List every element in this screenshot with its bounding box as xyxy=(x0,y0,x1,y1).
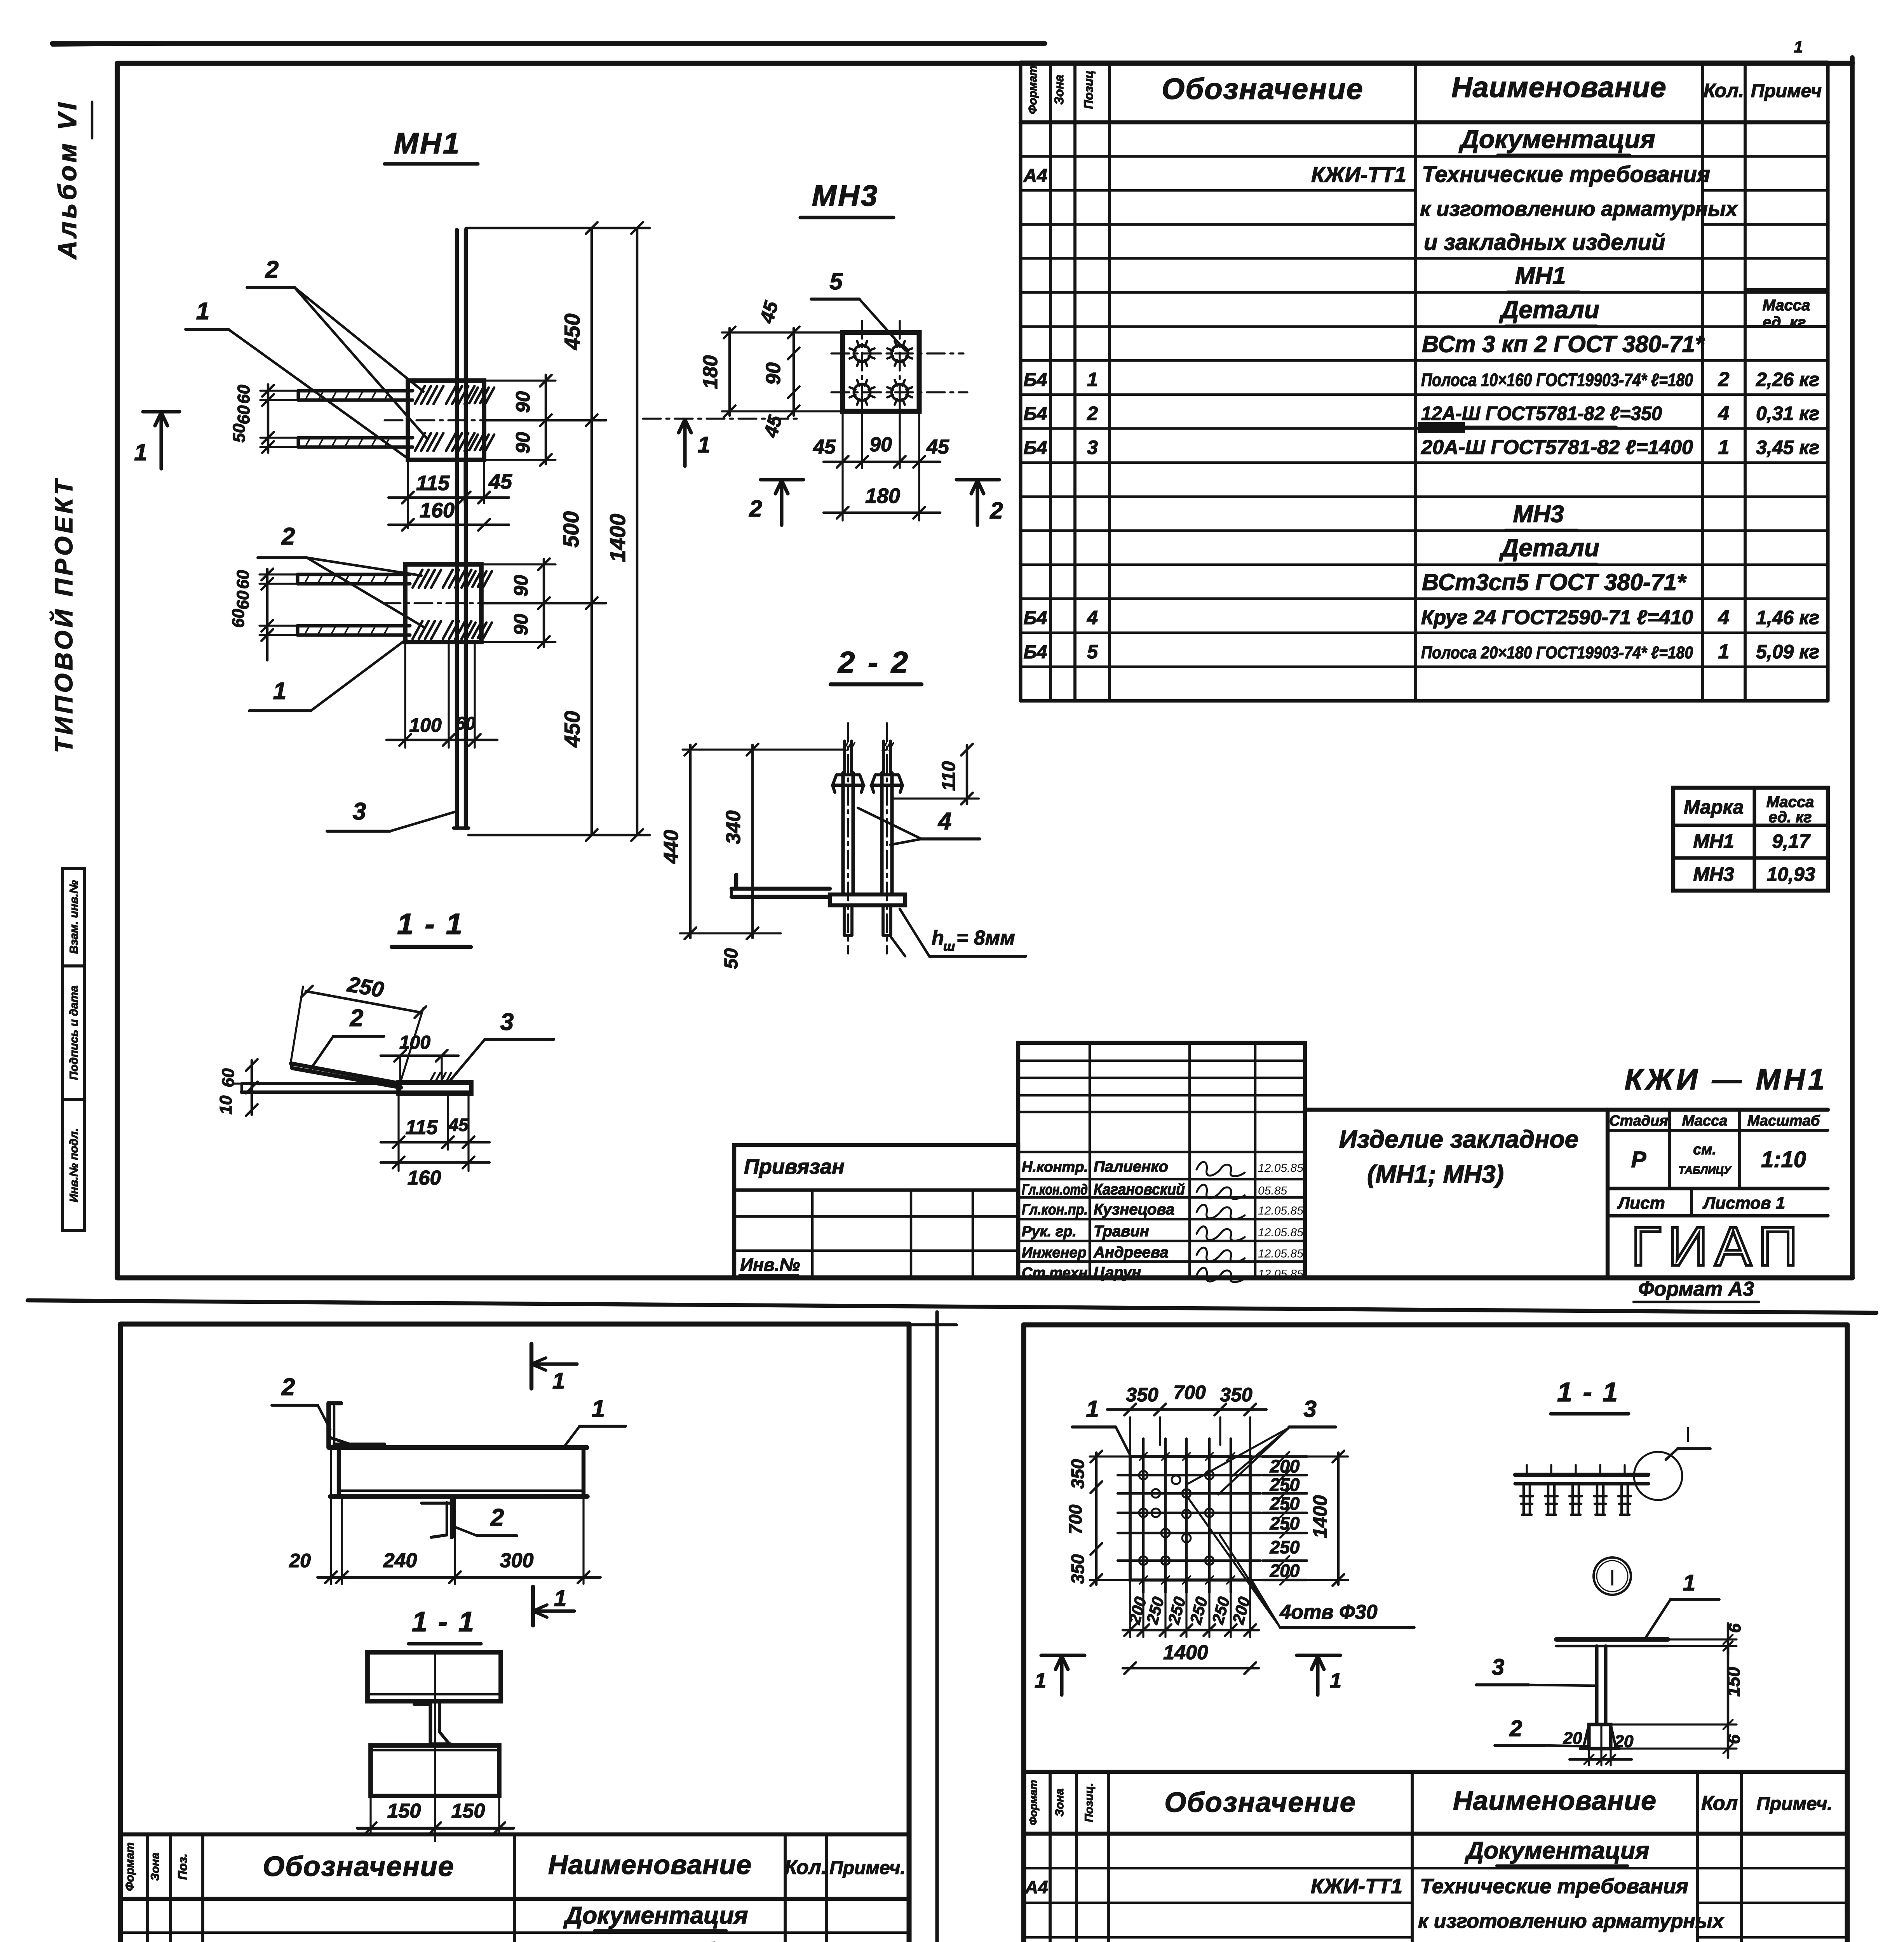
svg-text:250: 250 xyxy=(1270,1475,1300,1495)
svg-text:МН3: МН3 xyxy=(1513,501,1564,527)
svg-text:1 - 1: 1 - 1 xyxy=(397,908,464,941)
svg-text:Б4: Б4 xyxy=(1024,370,1047,390)
svg-text:Б4: Б4 xyxy=(1024,608,1047,628)
svg-text:А4: А4 xyxy=(1025,1877,1048,1897)
svg-text:Полоса 20×180 ГОСТ19903-74* ℓ=: Полоса 20×180 ГОСТ19903-74* ℓ=180 xyxy=(1421,643,1693,662)
svg-text:450: 450 xyxy=(560,711,584,747)
svg-text:10: 10 xyxy=(216,1095,235,1114)
svg-text:2 - 2: 2 - 2 xyxy=(837,645,910,679)
svg-text:1400: 1400 xyxy=(605,514,630,562)
svg-text:60: 60 xyxy=(233,570,253,589)
svg-text:КЖИ-ТТ1: КЖИ-ТТ1 xyxy=(1311,162,1406,186)
svg-text:1:10: 1:10 xyxy=(1761,1147,1806,1172)
svg-text:2: 2 xyxy=(989,498,1003,524)
svg-text:Масса: Масса xyxy=(1766,794,1814,811)
svg-text:60: 60 xyxy=(455,713,476,733)
svg-text:1400: 1400 xyxy=(1163,1641,1208,1664)
svg-text:Привязан: Привязан xyxy=(744,1155,845,1178)
svg-text:1: 1 xyxy=(1794,38,1803,56)
svg-text:Технические требования: Технические требования xyxy=(1420,1875,1688,1898)
svg-text:4: 4 xyxy=(1718,402,1730,425)
svg-text:МН1: МН1 xyxy=(394,127,461,160)
svg-text:1: 1 xyxy=(1683,1570,1695,1596)
svg-text:Примеч.: Примеч. xyxy=(829,1858,906,1878)
svg-text:115: 115 xyxy=(406,1116,438,1139)
svg-text:Детали: Детали xyxy=(1499,296,1599,324)
svg-text:5,09 кг: 5,09 кг xyxy=(1756,641,1819,663)
svg-text:1: 1 xyxy=(134,439,147,465)
svg-text:45: 45 xyxy=(813,436,836,458)
svg-text:МН1: МН1 xyxy=(1515,263,1566,289)
svg-text:МН1: МН1 xyxy=(1693,830,1734,852)
svg-text:250: 250 xyxy=(1270,1513,1300,1533)
svg-text:90: 90 xyxy=(762,362,785,385)
svg-text:60: 60 xyxy=(229,609,248,628)
svg-text:2: 2 xyxy=(350,1005,363,1032)
svg-text:3: 3 xyxy=(353,798,366,825)
svg-text:60: 60 xyxy=(233,590,253,609)
svg-text:Наименование: Наименование xyxy=(548,1850,752,1880)
svg-text:Взам. инв.№: Взам. инв.№ xyxy=(68,880,80,954)
svg-text:90: 90 xyxy=(510,575,532,597)
svg-text:3: 3 xyxy=(1303,1396,1316,1422)
svg-text:110: 110 xyxy=(939,761,959,791)
svg-text:45: 45 xyxy=(756,298,782,325)
svg-text:45: 45 xyxy=(926,436,949,458)
svg-text:1: 1 xyxy=(552,1368,565,1394)
svg-text:Стадия: Стадия xyxy=(1609,1113,1668,1129)
svg-text:Р: Р xyxy=(1631,1147,1646,1172)
svg-text:Документация: Документация xyxy=(563,1902,748,1929)
svg-text:ВСт3сп5 ГОСТ 380-71*: ВСт3сп5 ГОСТ 380-71* xyxy=(1422,569,1687,595)
svg-text:Подпись и дата: Подпись и дата xyxy=(68,985,80,1080)
svg-text:1: 1 xyxy=(1035,1669,1046,1692)
svg-text:5: 5 xyxy=(829,268,843,294)
svg-text:Б4: Б4 xyxy=(1024,438,1047,458)
svg-text:45: 45 xyxy=(448,1115,469,1135)
svg-text:Палиенко: Палиенко xyxy=(1094,1158,1168,1175)
svg-text:20А-Ш ГОСТ5781-82 ℓ=1400: 20А-Ш ГОСТ5781-82 ℓ=1400 xyxy=(1421,436,1693,459)
svg-text:Н.контр.: Н.контр. xyxy=(1022,1159,1088,1175)
svg-text:Формат: Формат xyxy=(124,1842,136,1891)
svg-text:12.05.85: 12.05.85 xyxy=(1258,1162,1303,1175)
svg-text:1: 1 xyxy=(1718,436,1730,459)
svg-text:150: 150 xyxy=(1723,1667,1744,1697)
svg-text:Альбом VI: Альбом VI xyxy=(53,100,82,260)
svg-text:Масса: Масса xyxy=(1763,297,1810,314)
svg-text:КЖИ — МН1: КЖИ — МН1 xyxy=(1625,1063,1828,1096)
svg-text:12А-Ш ГОСТ5781-82 ℓ=350: 12А-Ш ГОСТ5781-82 ℓ=350 xyxy=(1421,403,1662,425)
svg-text:Кол.: Кол. xyxy=(1704,80,1744,101)
svg-text:180: 180 xyxy=(699,355,722,389)
svg-text:Царун: Царун xyxy=(1094,1264,1141,1281)
svg-text:Б4: Б4 xyxy=(1024,404,1047,425)
svg-text:3: 3 xyxy=(500,1009,514,1035)
svg-text:h: h xyxy=(932,927,944,949)
svg-text:12.05.85: 12.05.85 xyxy=(1258,1204,1303,1217)
svg-text:Позиц: Позиц xyxy=(1082,70,1096,109)
svg-text:200: 200 xyxy=(1270,1561,1300,1581)
svg-text:и закладных изделий: и закладных изделий xyxy=(1424,230,1665,255)
svg-text:Наименование: Наименование xyxy=(1451,71,1667,103)
svg-text:3: 3 xyxy=(1492,1655,1504,1680)
svg-text:I: I xyxy=(1685,1422,1691,1446)
svg-text:Детали: Детали xyxy=(1499,534,1599,562)
svg-text:1: 1 xyxy=(1087,369,1098,390)
svg-text:ед. кг.: ед. кг. xyxy=(1763,314,1810,331)
svg-text:Технические требования: Технические требования xyxy=(1422,162,1710,187)
svg-text:1 - 1: 1 - 1 xyxy=(1557,1377,1619,1407)
svg-text:Зона: Зона xyxy=(1052,75,1066,104)
svg-text:к изготовлению арматурных: к изготовлению арматурных xyxy=(1420,197,1738,221)
svg-text:Примеч.: Примеч. xyxy=(1756,1794,1833,1814)
svg-text:200: 200 xyxy=(1270,1456,1300,1476)
svg-text:180: 180 xyxy=(865,484,900,508)
svg-text:ТАБЛИЦУ: ТАБЛИЦУ xyxy=(1678,1164,1732,1176)
svg-text:1: 1 xyxy=(592,1396,605,1422)
svg-text:ВСт 3 кп 2 ГОСТ 380-71*: ВСт 3 кп 2 ГОСТ 380-71* xyxy=(1422,331,1705,357)
svg-text:КЖИ-ТТ1: КЖИ-ТТ1 xyxy=(1311,1875,1402,1898)
svg-text:1400: 1400 xyxy=(1309,1495,1331,1538)
svg-text:Полоса 10×160 ГОСТ19903-74* ℓ=: Полоса 10×160 ГОСТ19903-74* ℓ=180 xyxy=(1421,370,1693,390)
svg-text:Обозначение: Обозначение xyxy=(263,1851,455,1882)
svg-text:350: 350 xyxy=(1068,1459,1088,1489)
svg-text:250: 250 xyxy=(1164,1595,1189,1626)
svg-text:500: 500 xyxy=(559,511,583,547)
svg-text:3: 3 xyxy=(1087,437,1098,458)
svg-text:700: 700 xyxy=(1173,1382,1206,1403)
svg-text:Инв.№: Инв.№ xyxy=(740,1255,800,1275)
svg-text:150: 150 xyxy=(387,1800,421,1822)
svg-text:20: 20 xyxy=(1614,1732,1634,1751)
svg-text:к изготовлению арматурных: к изготовлению арматурных xyxy=(1418,1910,1725,1933)
svg-text:2: 2 xyxy=(265,256,279,283)
svg-text:2: 2 xyxy=(1087,403,1098,425)
svg-text:Формат: Формат xyxy=(1027,1780,1039,1825)
svg-text:Рук. гр.: Рук. гр. xyxy=(1022,1223,1077,1240)
svg-text:Наименование: Наименование xyxy=(1453,1785,1657,1816)
svg-text:Гл.кон.отд: Гл.кон.отд xyxy=(1022,1182,1088,1198)
svg-text:ш: ш xyxy=(943,939,955,954)
svg-text:Лист: Лист xyxy=(1617,1194,1665,1213)
svg-text:45: 45 xyxy=(760,412,786,440)
svg-text:4: 4 xyxy=(937,808,951,835)
svg-text:2: 2 xyxy=(281,523,295,550)
svg-text:2,26 кг: 2,26 кг xyxy=(1756,369,1819,390)
svg-text:250: 250 xyxy=(1270,1493,1300,1514)
svg-text:1 - 1: 1 - 1 xyxy=(412,1606,476,1637)
svg-text:60: 60 xyxy=(234,385,253,404)
svg-text:Инженер: Инженер xyxy=(1022,1245,1087,1261)
svg-text:350: 350 xyxy=(1068,1554,1088,1584)
svg-text:50: 50 xyxy=(230,423,249,442)
svg-text:Зона: Зона xyxy=(149,1853,162,1881)
svg-text:ед. кг: ед. кг xyxy=(1768,809,1812,826)
svg-text:см.: см. xyxy=(1693,1142,1716,1158)
svg-text:350: 350 xyxy=(1126,1384,1158,1406)
svg-text:1: 1 xyxy=(1330,1669,1341,1692)
svg-text:Гл.кон.пр.: Гл.кон.пр. xyxy=(1022,1202,1088,1218)
svg-text:Марка: Марка xyxy=(1684,796,1744,818)
svg-text:Формат А3: Формат А3 xyxy=(1638,1278,1754,1300)
svg-text:I: I xyxy=(1609,1565,1615,1590)
svg-text:2: 2 xyxy=(1509,1716,1522,1741)
svg-text:20: 20 xyxy=(289,1550,311,1571)
svg-text:Травин: Травин xyxy=(1094,1223,1149,1240)
svg-text:90: 90 xyxy=(510,614,532,635)
svg-text:Ст.техн.: Ст.техн. xyxy=(1022,1265,1092,1281)
svg-text:(МН1; МН3): (МН1; МН3) xyxy=(1367,1160,1504,1188)
svg-text:Документация: Документация xyxy=(1458,125,1655,153)
svg-text:160: 160 xyxy=(408,1167,441,1189)
svg-text:КЖИ-ТТ1: КЖИ-ТТ1 xyxy=(413,1939,505,1942)
svg-text:Кол.: Кол. xyxy=(785,1856,827,1879)
svg-text:450: 450 xyxy=(560,313,584,350)
svg-text:700: 700 xyxy=(1065,1504,1085,1534)
svg-text:90: 90 xyxy=(512,391,534,413)
svg-text:2: 2 xyxy=(281,1374,295,1401)
svg-text:5: 5 xyxy=(1087,641,1098,663)
svg-text:240: 240 xyxy=(383,1549,417,1572)
svg-text:Примеч: Примеч xyxy=(1751,81,1822,101)
svg-text:12.05.85: 12.05.85 xyxy=(1258,1226,1303,1239)
svg-text:9,17: 9,17 xyxy=(1772,830,1811,852)
svg-text:115: 115 xyxy=(416,472,450,495)
svg-text:ГИАП: ГИАП xyxy=(1631,1216,1805,1277)
svg-text:12.05.85: 12.05.85 xyxy=(1258,1248,1303,1260)
svg-text:Листов 1: Листов 1 xyxy=(1702,1194,1785,1213)
svg-text:Формат: Формат xyxy=(1026,65,1039,114)
svg-text:2: 2 xyxy=(749,496,762,522)
svg-text:2: 2 xyxy=(1718,368,1730,391)
svg-text:4: 4 xyxy=(1718,606,1730,629)
svg-text:60: 60 xyxy=(219,1068,238,1087)
svg-text:1: 1 xyxy=(1086,1396,1099,1422)
svg-text:250: 250 xyxy=(1270,1537,1300,1557)
svg-text:150: 150 xyxy=(451,1800,485,1822)
svg-text:10,93: 10,93 xyxy=(1766,863,1815,885)
svg-text:05.85: 05.85 xyxy=(1258,1185,1287,1197)
svg-text:Масштаб: Масштаб xyxy=(1747,1113,1820,1129)
svg-text:Кагановский: Кагановский xyxy=(1094,1181,1185,1198)
svg-text:Технические требования к: Технические требования к xyxy=(521,1939,807,1942)
svg-text:Обозначение: Обозначение xyxy=(1162,73,1364,106)
svg-text:100: 100 xyxy=(409,714,442,736)
svg-text:Поз.: Поз. xyxy=(176,1853,190,1880)
svg-text:3,45 кг: 3,45 кг xyxy=(1756,437,1819,458)
svg-text:12.05.85: 12.05.85 xyxy=(1258,1268,1303,1281)
svg-text:Зона: Зона xyxy=(1053,1789,1066,1817)
svg-text:50: 50 xyxy=(721,948,742,969)
svg-text:= 8мм: = 8мм xyxy=(956,927,1015,949)
svg-text:250: 250 xyxy=(1186,1595,1211,1626)
svg-text:1: 1 xyxy=(554,1586,566,1611)
svg-text:1: 1 xyxy=(1718,640,1730,663)
svg-text:Изделие закладное: Изделие закладное xyxy=(1339,1125,1579,1153)
svg-text:1: 1 xyxy=(196,298,209,325)
svg-text:60: 60 xyxy=(234,405,253,424)
svg-text:Инв.№ подл.: Инв.№ подл. xyxy=(68,1128,80,1202)
svg-text:Андреева: Андреева xyxy=(1093,1244,1169,1261)
svg-text:350: 350 xyxy=(1220,1384,1252,1406)
svg-text:Позиц.: Позиц. xyxy=(1083,1783,1096,1822)
svg-text:МН3: МН3 xyxy=(1693,863,1734,885)
svg-text:4отв Ф30: 4отв Ф30 xyxy=(1279,1601,1377,1624)
svg-text:90: 90 xyxy=(869,433,892,456)
svg-text:1,46 кг: 1,46 кг xyxy=(1756,607,1819,628)
svg-text:2: 2 xyxy=(490,1504,504,1531)
svg-text:А4: А4 xyxy=(1023,165,1047,186)
svg-text:0,31 кг: 0,31 кг xyxy=(1756,403,1819,425)
svg-text:90: 90 xyxy=(512,432,534,454)
svg-text:1: 1 xyxy=(698,432,710,458)
svg-text:1: 1 xyxy=(273,678,286,705)
svg-text:МН3: МН3 xyxy=(812,179,879,212)
svg-text:6: 6 xyxy=(1725,1734,1744,1744)
svg-text:340: 340 xyxy=(722,811,745,844)
svg-text:Круг 24 ГОСТ2590-71 ℓ=410: Круг 24 ГОСТ2590-71 ℓ=410 xyxy=(1421,606,1693,629)
svg-text:Б4: Б4 xyxy=(1024,642,1047,663)
svg-text:Кузнецова: Кузнецова xyxy=(1094,1201,1174,1218)
svg-text:300: 300 xyxy=(500,1549,534,1572)
svg-text:6: 6 xyxy=(1725,1623,1744,1633)
svg-text:Кол: Кол xyxy=(1701,1792,1738,1815)
svg-text:Обозначение: Обозначение xyxy=(1164,1787,1356,1818)
svg-text:ТИПОВОЙ ПРОЕКТ: ТИПОВОЙ ПРОЕКТ xyxy=(49,477,78,753)
svg-text:45: 45 xyxy=(488,470,512,493)
svg-text:4: 4 xyxy=(1087,607,1098,628)
svg-text:160: 160 xyxy=(420,499,455,522)
svg-text:Документация: Документация xyxy=(1464,1838,1649,1864)
svg-text:Масса: Масса xyxy=(1682,1113,1728,1129)
svg-text:250: 250 xyxy=(345,971,386,1002)
svg-text:440: 440 xyxy=(660,830,683,864)
